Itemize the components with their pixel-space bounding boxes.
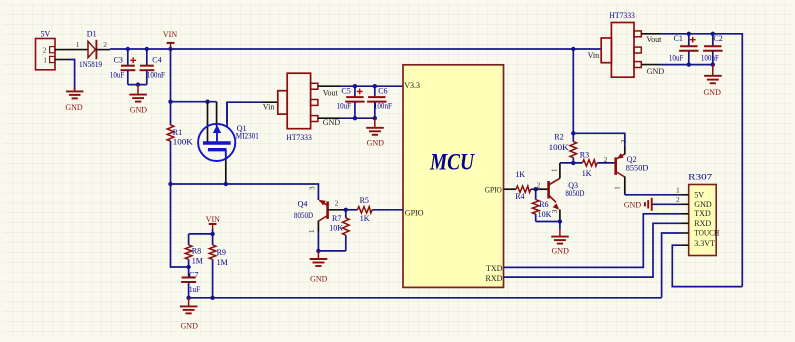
svg-text:VIN: VIN bbox=[206, 215, 220, 224]
wire MCU TXD to R307 bbox=[504, 214, 682, 268]
resistor R3 1K bbox=[580, 150, 615, 178]
connector 5V bbox=[36, 30, 69, 70]
svg-text:HT7333: HT7333 bbox=[609, 11, 635, 20]
power port VIN (touch divider) bbox=[206, 215, 220, 229]
svg-text:D1: D1 bbox=[87, 30, 97, 39]
node C3C4 gnd tap bbox=[136, 82, 140, 86]
wire 3.3V to R307 3.3VT bbox=[672, 245, 742, 286]
wire Vout rail to 3.3VT drop bbox=[660, 34, 742, 287]
wire gate net to C7 bbox=[171, 184, 189, 267]
svg-text:R6: R6 bbox=[539, 200, 548, 209]
svg-text:5V: 5V bbox=[694, 191, 704, 200]
svg-text:1K: 1K bbox=[360, 214, 370, 223]
node R9 top bbox=[210, 232, 214, 236]
svg-text:2: 2 bbox=[537, 180, 541, 189]
node R2 top / Q2 emitter branch bbox=[571, 131, 575, 135]
wire VIN to R8 R9 bbox=[189, 229, 213, 234]
wire Q2 emitter feed bbox=[573, 133, 625, 146]
wire R1 bottom to gate net bbox=[170, 141, 172, 184]
wire R6 Q3 emitter to gnd bbox=[536, 221, 560, 223]
node Q4 emitter gnd bbox=[316, 249, 320, 253]
svg-text:1K: 1K bbox=[515, 170, 525, 179]
svg-text:3.3VT: 3.3VT bbox=[694, 239, 715, 248]
regulator HT7333 (top right) bbox=[573, 11, 664, 77]
svg-text:V3.3: V3.3 bbox=[404, 81, 420, 90]
svg-text:TXD: TXD bbox=[694, 209, 711, 218]
svg-text:1: 1 bbox=[43, 55, 47, 64]
diode D1 1N5819 bbox=[66, 30, 110, 69]
node C4 top bbox=[145, 47, 149, 51]
svg-text:MCU: MCU bbox=[429, 150, 475, 175]
capacitor C3 bbox=[110, 49, 136, 85]
wire VIN drop to R1 bbox=[170, 49, 172, 125]
svg-text:8050D: 8050D bbox=[565, 189, 584, 198]
wire R307 GND pin bbox=[653, 203, 682, 205]
ground GND (C3 C4) bbox=[129, 85, 147, 115]
svg-text:GND: GND bbox=[367, 138, 385, 147]
svg-text:GND: GND bbox=[694, 200, 712, 209]
svg-text:C2: C2 bbox=[713, 34, 722, 43]
svg-text:1: 1 bbox=[76, 40, 80, 49]
svg-text:GND: GND bbox=[552, 246, 570, 255]
svg-text:Vout: Vout bbox=[323, 89, 339, 98]
svg-text:HT7333: HT7333 bbox=[286, 133, 312, 142]
resistor R5 1K bbox=[346, 196, 403, 223]
wire Q1 gate down bbox=[225, 160, 227, 184]
svg-text:GPIO: GPIO bbox=[405, 209, 424, 218]
ground GND (connector) bbox=[65, 88, 83, 112]
svg-text:RXD: RXD bbox=[486, 274, 503, 283]
svg-text:GND: GND bbox=[181, 322, 199, 331]
svg-text:8050D: 8050D bbox=[294, 211, 313, 220]
node Q3 emitter gnd bbox=[558, 219, 562, 223]
svg-text:1uF: 1uF bbox=[189, 285, 200, 294]
svg-text:C5: C5 bbox=[341, 87, 350, 96]
svg-text:GND: GND bbox=[647, 67, 665, 76]
svg-text:1: 1 bbox=[613, 186, 622, 190]
svg-text:3: 3 bbox=[550, 209, 559, 213]
resistor R2 100K bbox=[549, 133, 577, 163]
regulator U? HT7333 (middle) bbox=[262, 73, 340, 142]
resistor R6 10K bbox=[532, 189, 551, 221]
svg-text:3: 3 bbox=[619, 139, 628, 143]
node Q3 base junction bbox=[534, 187, 538, 191]
transistor Q4 8050D bbox=[294, 198, 346, 232]
transistor Q3 8050D bbox=[536, 163, 585, 222]
svg-text:R3: R3 bbox=[580, 150, 589, 159]
MCU box U2 bbox=[403, 65, 504, 288]
node C3 top bbox=[126, 47, 130, 51]
wire source branch bbox=[171, 101, 217, 103]
svg-text:Q4: Q4 bbox=[298, 200, 308, 209]
svg-text:2: 2 bbox=[43, 46, 47, 55]
svg-text:2: 2 bbox=[335, 198, 339, 207]
svg-text:R1: R1 bbox=[173, 128, 182, 137]
wire connector pin1 to ground bbox=[68, 60, 75, 91]
wire VIN branch down to R2 bbox=[572, 49, 574, 142]
node R1 top / source branch bbox=[168, 100, 172, 104]
capacitor C7 1uF bbox=[181, 267, 200, 298]
node C7 bottom bbox=[186, 296, 190, 300]
node VIN junction bbox=[168, 47, 172, 51]
svg-text:TXD: TXD bbox=[486, 264, 503, 273]
svg-text:GND: GND bbox=[65, 103, 83, 112]
resistor R9 1M bbox=[209, 234, 227, 298]
power port VIN bbox=[163, 30, 177, 49]
svg-text:RXD: RXD bbox=[694, 219, 711, 228]
node right branch bbox=[571, 47, 575, 51]
node C1 bottom bbox=[687, 62, 691, 66]
node R2 bottom / R3 / Q3 collector bbox=[571, 161, 575, 165]
svg-text:C7: C7 bbox=[189, 270, 198, 279]
svg-text:R2: R2 bbox=[554, 133, 563, 142]
svg-text:GND: GND bbox=[130, 106, 148, 115]
resistor R1 100K bbox=[167, 125, 193, 146]
svg-text:1M: 1M bbox=[217, 258, 228, 267]
node C2 top bbox=[711, 32, 715, 36]
wire touch rail bbox=[189, 297, 662, 299]
node gate net left bbox=[168, 182, 172, 186]
wire MCU right GPIO to R4 bbox=[504, 188, 517, 190]
svg-text:10uF: 10uF bbox=[669, 54, 684, 63]
svg-text:Vin: Vin bbox=[263, 103, 275, 112]
svg-text:1: 1 bbox=[676, 186, 680, 195]
ground GND (C1 C2) bbox=[704, 65, 722, 97]
wire Vout to MCU V3.3 bbox=[340, 85, 403, 87]
svg-text:Q2: Q2 bbox=[627, 155, 637, 164]
wire MCU RXD to R307 bbox=[504, 223, 682, 277]
svg-text:C4: C4 bbox=[152, 55, 161, 64]
svg-text:R307: R307 bbox=[688, 172, 712, 181]
svg-text:2: 2 bbox=[676, 195, 680, 204]
wire Q2 collector to R307 5V bbox=[625, 194, 681, 196]
capacitor C4 bbox=[140, 49, 166, 85]
svg-text:GND: GND bbox=[624, 201, 642, 210]
svg-text:1: 1 bbox=[549, 168, 558, 172]
svg-text:GND: GND bbox=[704, 88, 722, 97]
svg-text:1M: 1M bbox=[192, 257, 203, 266]
svg-text:10K: 10K bbox=[329, 224, 343, 233]
connector R307 bbox=[676, 172, 720, 255]
svg-text:100K: 100K bbox=[173, 137, 193, 146]
svg-text:GPIO: GPIO bbox=[485, 186, 502, 195]
node C7 top bbox=[186, 265, 190, 269]
svg-text:TOUCH: TOUCH bbox=[694, 229, 719, 238]
node R9 bottom bbox=[210, 296, 214, 300]
capacitor C2 100nF bbox=[701, 34, 723, 65]
resistor R8 1M bbox=[185, 234, 203, 267]
node C5 bottom bbox=[353, 116, 357, 120]
svg-text:5V: 5V bbox=[41, 30, 51, 39]
ground GND (Q4) bbox=[310, 251, 328, 284]
svg-text:100nF: 100nF bbox=[701, 54, 719, 63]
svg-text:10uF: 10uF bbox=[337, 101, 352, 110]
svg-text:2: 2 bbox=[604, 155, 608, 164]
capacitor C5 bbox=[337, 86, 365, 118]
svg-text:C3: C3 bbox=[114, 55, 123, 64]
wire gate net horizontal bbox=[171, 183, 317, 185]
svg-text:Vout: Vout bbox=[646, 35, 662, 44]
capacitor C1 10uF bbox=[669, 34, 699, 65]
svg-text:C1: C1 bbox=[674, 34, 683, 43]
node Q4 base junction bbox=[344, 208, 348, 212]
svg-text:Vin: Vin bbox=[588, 51, 600, 60]
svg-text:3: 3 bbox=[308, 186, 317, 190]
svg-text:R7: R7 bbox=[332, 214, 341, 223]
svg-text:R8: R8 bbox=[192, 247, 201, 256]
node C1 top bbox=[687, 32, 691, 36]
svg-text:C6: C6 bbox=[378, 87, 387, 96]
svg-text:MI2301: MI2301 bbox=[236, 132, 259, 141]
node C5 top bbox=[353, 84, 357, 88]
svg-text:R9: R9 bbox=[217, 248, 226, 257]
wire regulator gnd to caps bbox=[660, 64, 713, 66]
svg-text:R5: R5 bbox=[360, 196, 369, 205]
svg-text:2: 2 bbox=[103, 40, 107, 49]
resistor R7 10K bbox=[329, 210, 349, 251]
svg-text:GND: GND bbox=[323, 118, 341, 127]
ground GND (Q3) bbox=[551, 222, 569, 256]
svg-text:10uF: 10uF bbox=[110, 71, 125, 80]
wire touch rail to R307 TOUCH bbox=[662, 233, 681, 298]
wire Q3 collector to R3 bbox=[560, 162, 583, 164]
svg-text:VIN: VIN bbox=[163, 30, 177, 39]
node C2 bottom bbox=[711, 62, 715, 66]
wire C3/C4 bottoms bbox=[128, 84, 147, 86]
svg-text:GND: GND bbox=[310, 275, 328, 284]
transistor Q1 MI2301 bbox=[198, 102, 259, 161]
resistor R4 1K bbox=[515, 170, 536, 201]
svg-text:100nF: 100nF bbox=[147, 71, 165, 80]
wire Q1 drain to regulator bbox=[227, 102, 262, 127]
node gate net at Q1 bbox=[224, 182, 228, 186]
svg-text:100nF: 100nF bbox=[374, 101, 392, 110]
wire gate net down to Q4 bbox=[316, 184, 318, 200]
svg-text:1N5819: 1N5819 bbox=[79, 60, 102, 69]
capacitor C6 bbox=[367, 86, 392, 118]
svg-text:8550D: 8550D bbox=[626, 164, 649, 173]
transistor Q2 8550D bbox=[616, 146, 649, 195]
node C6 bottom bbox=[373, 116, 377, 120]
wire top VIN rail bbox=[110, 48, 573, 50]
node mosfet source bbox=[205, 100, 209, 104]
wire Q4 collector to gnd node bbox=[318, 232, 345, 251]
node C6 top bbox=[373, 84, 377, 88]
svg-text:100K: 100K bbox=[549, 143, 569, 152]
wire regulator GND to caps bbox=[340, 117, 375, 119]
svg-text:1: 1 bbox=[307, 229, 316, 233]
ground GND (R307, sideways) bbox=[624, 198, 652, 211]
ground GND (C7) bbox=[180, 298, 198, 331]
ground GND (C5 C6) bbox=[366, 118, 384, 147]
svg-text:R4: R4 bbox=[515, 192, 524, 201]
svg-text:1K: 1K bbox=[582, 169, 592, 178]
